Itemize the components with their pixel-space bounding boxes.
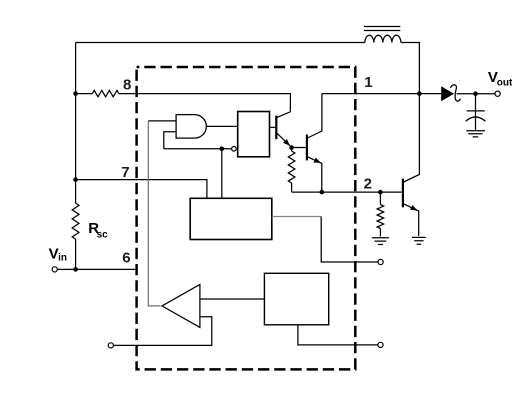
- wire pin1 node to diode: [419, 93, 441, 95]
- transistor Q3 base bar: [402, 179, 404, 208]
- wire AND gate output to latch: [206, 125, 237, 127]
- node Q1 emitter / Q2 base junction dot: [289, 145, 294, 150]
- svg-text:6: 6: [122, 250, 130, 267]
- inductor L windings: [365, 35, 401, 42]
- wire pin 3 jog to terminal: [321, 217, 378, 263]
- wire reference box to comparator input: [200, 298, 265, 300]
- ground symbol below pin2 resistor: [372, 238, 389, 245]
- svg-text:in: in: [58, 252, 67, 263]
- wire latch output to Q1 base: [270, 126, 276, 128]
- transistor Q2 base bar: [306, 135, 308, 161]
- diode D1 curved cathode: [451, 85, 461, 101]
- terminal pin 4 open circle: [378, 342, 383, 347]
- node pin1/inductor/diode junction dot: [417, 91, 422, 96]
- wire pin 5 terminal to comparator inverting input: [113, 317, 211, 346]
- wire oscillator to pin 3 (grey): [272, 216, 321, 218]
- wire inductor to pin-1/diode node: [401, 43, 420, 94]
- wire diode to output node: [457, 93, 496, 95]
- wire pin 1 line: [322, 93, 420, 95]
- svg-text:2: 2: [364, 175, 372, 192]
- wire pin 2 line: [292, 191, 402, 193]
- resistor R (pin 8 drive collector): [92, 90, 119, 96]
- comparator U4 triangle: [162, 284, 200, 327]
- wire left Vin rail vertical: [75, 43, 77, 270]
- wire AND gate bottom input jog: [164, 132, 176, 149]
- terminal Vin open circle: [52, 267, 57, 272]
- transistor Q1 collector: [277, 112, 291, 118]
- svg-text:sc: sc: [97, 229, 109, 240]
- inductor L core lines: [364, 27, 400, 31]
- svg-text:8: 8: [123, 76, 131, 93]
- wire feedback junction down to oscillator: [221, 149, 223, 199]
- latch box U2: [238, 112, 270, 157]
- wire Q2 base: [292, 147, 306, 149]
- node pin8 junction dot on Vin rail: [73, 91, 78, 96]
- terminal Vout open circle: [495, 91, 500, 96]
- latch inverting input bubble: [232, 147, 237, 152]
- node pin7 junction dot on Vin rail: [73, 177, 78, 182]
- wire pin 7 to oscillator box: [76, 180, 207, 199]
- transistor Q3 emitter: [404, 204, 419, 236]
- wire reference box output to pin 4 terminal: [298, 325, 378, 345]
- reference box U5: [264, 273, 328, 325]
- terminal pin 5 open circle: [108, 343, 113, 348]
- transistor Q1 base bar: [275, 116, 277, 140]
- node Q2 emitter junction dot: [320, 190, 325, 195]
- ground symbol Q3 emitter: [412, 237, 426, 244]
- resistor pin2 to ground: [379, 192, 381, 204]
- terminal pin 3 open circle: [378, 259, 383, 264]
- transistor Q3 collector: [404, 94, 420, 182]
- dashed IC boundary box: [137, 67, 356, 369]
- capacitor Co curved bottom plate: [466, 117, 486, 121]
- oscillator box U3: [190, 198, 272, 239]
- wire feedback line to latch bubble: [164, 148, 232, 150]
- resistor Q1 emitter-ground (base bleed): [291, 148, 293, 152]
- capacitor Co top plate: [467, 110, 485, 112]
- node Vin junction dot: [73, 267, 78, 272]
- transistor Q2 collector to pin 1: [308, 94, 322, 138]
- comparator output feedback to AND gate (grey): [148, 121, 160, 306]
- transistor Q1 emitter: [277, 133, 292, 147]
- wire pin 8 to Q1 collector: [119, 94, 291, 112]
- wire Vin terminal to pin 6: [57, 268, 138, 270]
- capacitor Co vertical lead: [475, 94, 477, 131]
- svg-text:7: 7: [121, 164, 129, 181]
- svg-text:1: 1: [364, 74, 372, 91]
- node pin2 resistor junction dot: [378, 190, 383, 195]
- transistor Q2 emitter: [308, 157, 322, 192]
- wire AND gate top input from comparator: [148, 120, 176, 122]
- wire top rail from Vin rail to inductor: [76, 42, 365, 44]
- AND gate U1: [176, 115, 206, 139]
- diode D1 anode triangle: [441, 86, 454, 101]
- wire Vin rail to resistor R: [76, 93, 93, 95]
- node feedback junction dot: [220, 147, 225, 152]
- resistor Rsc: [72, 203, 79, 239]
- node output cap junction dot: [473, 91, 478, 96]
- svg-text:out: out: [497, 77, 512, 88]
- ground symbol output capacitor: [466, 131, 485, 137]
